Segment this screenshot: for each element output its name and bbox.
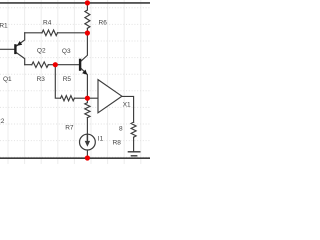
current source I1 — [80, 134, 96, 150]
svg-text:R2: R2 — [0, 118, 5, 125]
svg-text:X1: X1 — [123, 101, 131, 108]
svg-text:R1: R1 — [0, 22, 8, 29]
svg-text:R3: R3 — [37, 76, 46, 83]
wire node A to Q3 base — [55, 64, 79, 66]
wire Q3 collector lead — [81, 33, 87, 61]
ground — [128, 151, 139, 153]
junction node A R3/Q3 base/R5 — [53, 62, 58, 67]
resistor R7 — [85, 98, 90, 117]
svg-text:8: 8 — [119, 126, 123, 133]
wire Q3 emitter lead — [81, 69, 87, 99]
svg-text:R5: R5 — [63, 76, 72, 83]
svg-text:Q1: Q1 — [3, 76, 12, 83]
resistor R5 — [61, 96, 75, 101]
resistor R3 — [32, 62, 49, 68]
resistor R8 — [131, 122, 136, 137]
wire R6 bottom stub — [86, 28, 88, 33]
wire Q2 collector lead — [17, 53, 25, 65]
svg-text:R7: R7 — [65, 124, 74, 131]
wire R5 to node C — [74, 97, 87, 99]
wire R4 left segment from Q2 emitter — [25, 32, 42, 34]
resistor R4 — [42, 30, 58, 36]
grid (decorative) — [8, 0, 141, 164]
op-amp X1 — [98, 80, 122, 113]
wire R3 to node A — [48, 64, 55, 66]
svg-text:Q2: Q2 — [37, 47, 46, 54]
wire node A down to R5 — [55, 65, 60, 99]
junction node top R6 — [85, 0, 90, 5]
wire R7 to I1 — [86, 118, 88, 135]
I1 arrow head — [85, 141, 90, 147]
svg-text:I1: I1 — [98, 136, 104, 143]
wire R8 to ground — [133, 137, 135, 151]
svg-text:R4: R4 — [43, 20, 52, 27]
wire op-amp output — [122, 96, 134, 122]
wire Q2 base lead — [0, 48, 14, 50]
wire R4 right segment to node B — [58, 32, 88, 34]
wire node C to op-amp input — [87, 97, 98, 99]
wire I1 to bottom rail — [86, 150, 88, 158]
svg-text:R8: R8 — [113, 140, 122, 147]
resistor R6 — [85, 10, 90, 28]
transistor Q3 — [79, 59, 87, 75]
svg-text:R6: R6 — [99, 19, 108, 26]
junction node I1/bottom rail — [85, 155, 90, 160]
svg-text:Q3: Q3 — [62, 48, 71, 55]
junction node B R4/R6/Q3 collector — [85, 30, 90, 35]
wire R6 top stub — [86, 3, 88, 10]
wire R3 left stub — [25, 64, 32, 66]
wire bottom rail — [0, 157, 150, 159]
wire Q2 emitter lead — [17, 33, 25, 46]
wire top supply rail — [0, 2, 150, 4]
transistor Q2 — [14, 41, 22, 54]
junction node C R5/Q3 emitter/op-amp/R7 — [85, 96, 90, 101]
